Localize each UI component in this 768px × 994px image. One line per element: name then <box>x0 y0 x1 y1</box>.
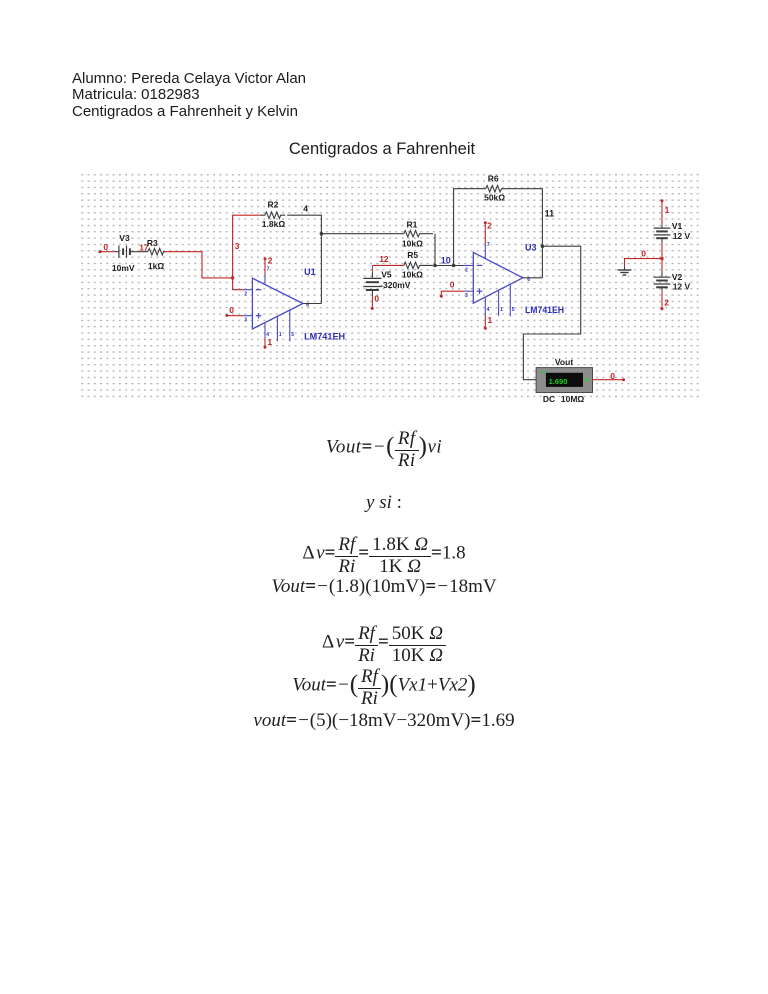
svg-text:3: 3 <box>465 293 468 299</box>
resistor R2 1.8k <box>260 200 286 229</box>
svg-text:R6: R6 <box>488 173 499 183</box>
svg-text:50kΩ: 50kΩ <box>484 193 505 203</box>
svg-text:DC: DC <box>543 394 555 404</box>
svg-text:1kΩ: 1kΩ <box>148 261 164 271</box>
wire R1 down to summing node <box>434 234 436 266</box>
node 0 (input source net) <box>98 242 108 253</box>
wire U1 output <box>303 303 322 305</box>
svg-text:3: 3 <box>235 241 240 251</box>
svg-text:5: 5 <box>291 332 294 338</box>
wire output to voltmeter <box>523 246 580 380</box>
equation 1: Vout = -(Rf/Ri)vi <box>0 430 768 470</box>
node 1 at U1 V- pin <box>264 337 273 349</box>
battery V3 10mV <box>112 233 142 273</box>
resistor R3 1k <box>142 238 166 271</box>
svg-text:R1: R1 <box>407 219 418 229</box>
svg-text:11: 11 <box>545 209 555 219</box>
wire summing node to U3 minus input <box>435 265 462 267</box>
node 0 at U1 plus input <box>225 305 243 317</box>
svg-text:2: 2 <box>244 292 247 298</box>
svg-text:V5: V5 <box>381 269 392 279</box>
wire node1 to V1 <box>661 201 663 225</box>
svg-text:4: 4 <box>487 307 490 313</box>
wire net 4: R2 to output riser <box>287 215 321 303</box>
net 0 right of voltmeter <box>593 371 625 381</box>
svg-text:12: 12 <box>379 254 389 264</box>
svg-text:LM741EH: LM741EH <box>525 305 564 315</box>
svg-text:0: 0 <box>374 294 379 304</box>
junction net 4 <box>320 232 324 236</box>
svg-text:10MΩ: 10MΩ <box>561 394 585 404</box>
svg-text:2: 2 <box>465 267 468 273</box>
svg-text:7: 7 <box>267 267 270 273</box>
wire source to V3 <box>100 251 115 253</box>
wire U3 output <box>523 277 543 279</box>
battery V5 320mV <box>363 265 410 295</box>
resistor R6 50k with feedback wire <box>454 173 543 277</box>
svg-text:10: 10 <box>441 256 451 266</box>
svg-text:1: 1 <box>500 307 503 313</box>
svg-text:LM741EH: LM741EH <box>304 332 345 342</box>
svg-text:U3: U3 <box>525 242 537 252</box>
equation 6 <box>0 668 768 708</box>
svg-text:-320mV: -320mV <box>380 280 411 290</box>
svg-text:R5: R5 <box>407 250 418 260</box>
wire junction to U1 minus pin <box>233 278 244 290</box>
op-amp U3 <box>464 242 564 316</box>
node 2 at U1 V+ pin <box>264 255 273 273</box>
svg-text:1.8kΩ: 1.8kΩ <box>262 219 286 229</box>
svg-text:R2: R2 <box>268 200 279 210</box>
junction at feedback tap <box>452 264 456 268</box>
equation 5 <box>0 625 768 665</box>
equation: y si : <box>0 492 768 514</box>
svg-text:2: 2 <box>268 255 273 265</box>
node 2 below V2 <box>661 291 670 310</box>
svg-text:0: 0 <box>641 249 646 259</box>
svg-text:1.690: 1.690 <box>549 377 568 386</box>
svg-text:12 V: 12 V <box>673 231 691 241</box>
resistor R5 10k <box>402 250 433 280</box>
net 12 label and wire V5 to R5 <box>372 254 403 265</box>
svg-text:4: 4 <box>303 203 308 213</box>
svg-text:V1: V1 <box>672 221 683 231</box>
wire R3 to U1 inverting input <box>164 252 233 278</box>
svg-text:12 V: 12 V <box>673 281 691 291</box>
svg-text:2: 2 <box>664 298 669 308</box>
battery V2 12V <box>654 270 691 291</box>
node 0 below V5 <box>371 294 380 310</box>
node 1 top of V1 <box>661 199 670 215</box>
svg-text:5: 5 <box>512 307 515 313</box>
voltmeter Vout <box>536 357 592 404</box>
svg-text:V3: V3 <box>119 233 130 243</box>
svg-text:2: 2 <box>487 220 492 230</box>
node 2 at U3 V+ pin <box>484 220 492 244</box>
svg-text:1: 1 <box>279 332 282 338</box>
junction summing node <box>433 264 437 268</box>
svg-text:Vout: Vout <box>555 357 573 367</box>
svg-text:0: 0 <box>610 371 615 381</box>
svg-text:0: 0 <box>450 280 455 290</box>
svg-text:1: 1 <box>665 205 670 215</box>
wire feedback riser net 3 <box>233 215 260 278</box>
svg-text:10kΩ: 10kΩ <box>402 238 423 248</box>
svg-text:1: 1 <box>267 337 272 347</box>
equation 7 <box>0 710 768 732</box>
junction at net 3 <box>231 276 234 279</box>
wire junction to ground <box>625 259 663 267</box>
svg-text:7: 7 <box>487 242 490 248</box>
section title <box>0 140 764 159</box>
wire junction to V2 <box>661 259 663 271</box>
svg-text:0: 0 <box>103 242 108 252</box>
svg-text:10kΩ: 10kΩ <box>402 270 423 280</box>
svg-text:10mV: 10mV <box>112 263 135 273</box>
wire net 4 to R1 <box>321 233 403 235</box>
junction U3 output net <box>541 244 545 248</box>
node 1 at U3 V- pin <box>484 315 493 330</box>
resistor R1 10k <box>402 219 433 248</box>
svg-text:R3: R3 <box>147 238 158 248</box>
op-amp U1 <box>243 267 345 342</box>
junction mid rail net 0 <box>661 257 664 260</box>
ground <box>618 266 632 275</box>
battery V1 12V <box>654 221 691 243</box>
svg-text:3: 3 <box>244 318 247 324</box>
wire V1 to mid junction <box>661 243 663 259</box>
header text <box>72 71 306 120</box>
svg-text:0: 0 <box>229 305 234 315</box>
equation 3 <box>0 536 768 576</box>
svg-text:1: 1 <box>488 315 493 325</box>
node 0 at U3 plus input <box>440 280 464 298</box>
equation 4 <box>0 576 768 598</box>
svg-text:U1: U1 <box>304 267 316 277</box>
